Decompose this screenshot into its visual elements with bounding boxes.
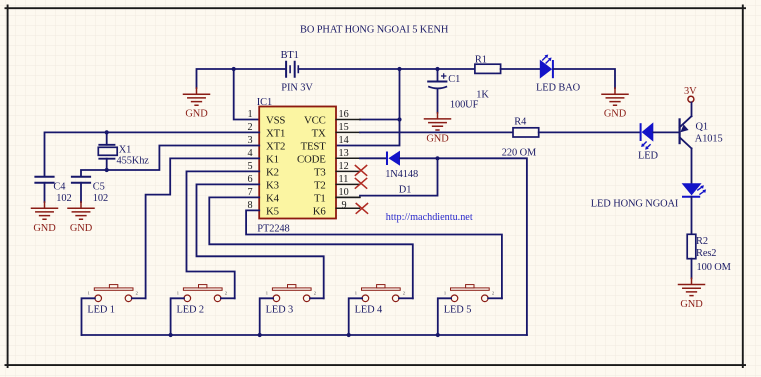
svg-text:LED 2: LED 2 [177,304,205,315]
wire: battery net top-left to GND [197,69,287,88]
pin 10 short stub black [336,196,359,198]
wire: LED BAO to GND drop [554,69,616,88]
push button LED 1 [87,285,137,316]
svg-text:GND: GND [426,134,449,145]
svg-text:100 OM: 100 OM [697,262,731,273]
capacitor C4 [34,177,71,204]
svg-text:GND: GND [33,223,56,234]
svg-text:LED 5: LED 5 [444,304,472,315]
svg-text:GND: GND [185,108,208,119]
svg-text:2: 2 [314,291,316,296]
capacitor C1 [427,69,478,113]
svg-text:102: 102 [93,193,108,204]
title text [300,24,449,35]
pin 15 stub [336,131,360,133]
svg-text:BT1: BT1 [281,50,299,61]
svg-text:455Khz: 455Khz [117,156,150,167]
ground (C5 GND) [68,202,94,234]
svg-text:1K: 1K [476,89,489,100]
crystal X1 [98,132,149,170]
wire: button5 right pin [488,297,502,299]
svg-text:C1: C1 [448,74,460,85]
diode D1 1N4148 [385,151,418,196]
node: bus junction button3 [258,333,262,337]
push button LED 4 [355,285,405,316]
wire: R4 to LED [539,131,641,133]
svg-text:1: 1 [355,291,357,296]
resistor R2 [687,234,731,273]
node: crystal bottom junction [105,168,109,172]
svg-text:16: 16 [339,109,349,120]
wire: LED to Q1 base [653,131,678,133]
wire: button1 right pin [132,297,146,299]
node: junction VCC riser [397,67,401,71]
svg-text:LED: LED [638,151,658,162]
svg-text:T1: T1 [314,192,326,204]
pin 16 stub [336,119,360,121]
svg-text:LED 1: LED 1 [87,304,115,315]
LED HONG NGOAI (IR LED) [591,183,706,209]
svg-text:K5: K5 [266,205,279,217]
wire: button3 left pin to bus [260,298,273,335]
svg-text:C4: C4 [53,182,66,193]
svg-text:VCC: VCC [304,114,326,126]
svg-text:GND: GND [604,108,627,119]
svg-text:TX: TX [312,127,326,139]
svg-text:1: 1 [248,109,253,120]
wire: R1 to LED BAO [501,68,540,70]
push button LED 3 [266,285,316,316]
svg-text:K6: K6 [313,205,327,217]
node: junction battery / pin1 [232,67,236,71]
svg-text:K1: K1 [266,153,279,165]
svg-text:T2: T2 [314,179,326,191]
wire: junction right and down to key bus [438,158,527,335]
node: junction on pin16 wire [397,117,401,121]
wire: D1 to junction [400,157,438,159]
svg-text:XT1: XT1 [266,127,285,139]
svg-text:1: 1 [266,291,268,296]
no-ERC X pin 9 [356,203,368,214]
battery BT1 [281,50,314,94]
svg-text:A1015: A1015 [695,134,723,145]
svg-text:11: 11 [339,174,349,185]
node: bus junction button5 [436,333,440,337]
ground (battery GND) [184,88,210,119]
svg-text:1: 1 [177,291,179,296]
svg-text:2: 2 [225,291,227,296]
svg-text:2: 2 [136,291,138,296]
ground (R2 GND) [679,278,705,310]
svg-text:K4: K4 [266,192,280,204]
wire: junction down to IC pin 1 [234,69,260,120]
capacitor C5 [71,177,108,204]
no-ERC X pin 11 [355,178,367,189]
ground (LED BAO GND) [602,88,628,119]
wire: button1 left pin to bus [82,298,95,335]
svg-text:K2: K2 [266,166,279,178]
wire: K3 pin6 to button 3 [197,184,324,298]
resistor R4 [502,116,539,158]
pin 11 stub (NC) [336,183,359,185]
svg-text:LED 3: LED 3 [266,304,294,315]
wire: R2 to GND [691,259,693,279]
svg-text:15: 15 [339,122,349,133]
svg-text:1N4148: 1N4148 [385,169,418,180]
svg-text:D1: D1 [399,184,412,195]
svg-text:http://machdientu.net: http://machdientu.net [386,212,473,223]
svg-text:BO PHAT HONG NGOAI 5 KENH: BO PHAT HONG NGOAI 5 KENH [300,24,449,35]
svg-text:LED BAO: LED BAO [536,82,581,93]
svg-text:LED HONG NGOAI: LED HONG NGOAI [591,199,679,210]
LED (indicator) [638,122,658,161]
svg-text:2: 2 [403,291,405,296]
svg-text:VSS: VSS [266,114,285,126]
wire: button4 right pin [399,297,413,299]
svg-text:9: 9 [342,200,347,211]
svg-text:14: 14 [339,135,349,146]
svg-text:PT2248: PT2248 [257,224,289,235]
svg-text:10: 10 [339,187,349,198]
wire: K2 pin5 to button 2 [187,171,260,298]
wire: button2 right pin [221,297,235,299]
wire: IR LED to R2 [691,197,693,235]
svg-text:C5: C5 [93,182,105,193]
svg-text:GND: GND [70,223,93,234]
svg-text:XT2: XT2 [266,140,285,152]
svg-text:IC1: IC1 [257,97,272,108]
svg-text:GND: GND [680,299,703,310]
svg-text:Res2: Res2 [696,248,716,259]
svg-text:CODE: CODE [297,153,326,165]
svg-text:1: 1 [444,291,446,296]
svg-text:Q1: Q1 [696,121,709,132]
node: crystal top junction [105,130,109,134]
node: D1 junction [435,156,439,160]
wire: button2 left pin to bus [171,298,184,335]
IC U1 PT2248 body [257,97,336,235]
node: junction C1 [435,67,439,71]
wire: Q1 collector down to IR LED [691,148,693,183]
svg-text:PIN 3V: PIN 3V [281,82,313,93]
transistor Q1 A1015 [680,116,723,148]
wire: button5 left pin to bus [438,298,451,335]
wire: battery + to R1 [298,68,475,70]
pin numbers right 16-9 [339,109,349,211]
power port 3V [684,86,697,116]
resistor R1 [475,55,501,101]
wire: K4 pin7 to button 4 [209,197,412,298]
svg-text:X1: X1 [119,144,132,155]
svg-text:1: 1 [88,291,90,296]
wire: XT2 pin3 to crystal bottom and C5 [81,146,259,177]
no-ERC X pin 12 [355,165,367,176]
wire: riser continues to TEST pin 14 [336,120,399,146]
ground (C1 GND) [425,113,451,145]
svg-text:2: 2 [492,291,494,296]
wire: button4 left pin to bus [349,298,362,335]
svg-text:100UF: 100UF [450,99,479,110]
pin 13 stub [336,157,360,159]
pin 9 stub (NC) [336,207,359,209]
node: bus junction button2 [169,333,173,337]
pin names left column [266,114,285,217]
wire: K5 pin8 to button 5 [246,210,502,298]
pin 10 stub [336,196,360,198]
svg-text:R4: R4 [514,116,527,127]
svg-text:TEST: TEST [301,140,327,152]
svg-text:R2: R2 [696,236,708,247]
wire: K1 pin4 to button 1 [146,158,260,298]
svg-text:LED 4: LED 4 [355,304,383,315]
push button LED 2 [177,285,227,316]
svg-text:K3: K3 [266,179,279,191]
svg-text:12: 12 [339,161,349,172]
wire: VCC riser to pin16 [399,69,401,120]
wire: TX pin15 to R4 [360,131,513,133]
svg-text:102: 102 [56,193,71,204]
LED BAO diode [536,55,581,94]
svg-text:220 OM: 220 OM [502,148,536,159]
wire: pin16 to riser [360,119,400,121]
wire: junction down to T1 pin10 [360,158,438,195]
svg-text:3V: 3V [684,86,697,97]
wire: button3 right pin [310,297,324,299]
node: bus junction button4 [347,333,351,337]
svg-text:T3: T3 [314,166,326,178]
svg-text:3: 3 [248,135,253,146]
wire: XT1 pin2 to C4 [45,132,260,176]
pin 12 stub (NC) [336,170,359,172]
ground (C4 GND) [32,202,58,234]
wire: CODE pin13 to D1 [360,157,386,159]
wire: bottom key bus [82,334,527,336]
link text [386,212,473,223]
push button LED 5 [444,285,494,316]
pin names right column [297,114,326,217]
pin numbers left 1-8 [248,109,253,211]
